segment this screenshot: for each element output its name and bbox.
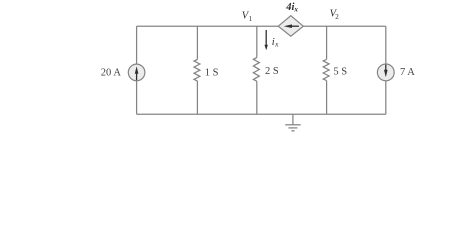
svg-text:1 S: 1 S <box>205 67 219 78</box>
svg-text:20 A: 20 A <box>101 68 122 79</box>
svg-text:5 S: 5 S <box>333 66 347 77</box>
svg-text:4i: 4i <box>285 2 294 13</box>
svg-text:x: x <box>293 6 298 14</box>
svg-text:2: 2 <box>335 13 339 21</box>
svg-text:7 A: 7 A <box>400 67 415 78</box>
svg-text:2 S: 2 S <box>265 66 279 77</box>
svg-text:1: 1 <box>249 15 253 23</box>
svg-text:x: x <box>274 40 279 48</box>
